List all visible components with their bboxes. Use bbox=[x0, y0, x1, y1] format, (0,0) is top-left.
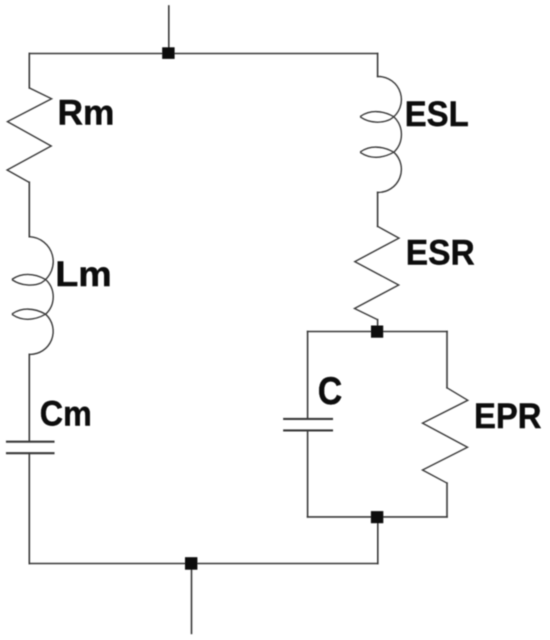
svg-text:EPR: EPR bbox=[474, 396, 542, 436]
svg-text:ESR: ESR bbox=[406, 233, 475, 273]
resistor Rm bbox=[7, 88, 52, 182]
node top terminal junction bbox=[162, 47, 174, 59]
wire node B to bottom rail bbox=[377, 517, 379, 564]
node A (ESR / parallel block top) bbox=[371, 326, 383, 338]
wire parallel block bottom rail bbox=[308, 516, 447, 518]
resistor ESR bbox=[355, 226, 400, 319]
wire left upper (top rail to Rm) bbox=[28, 54, 30, 88]
svg-text:Lm: Lm bbox=[55, 254, 112, 294]
inductor Lm bbox=[13, 237, 54, 355]
capacitor C bbox=[284, 419, 332, 431]
svg-text:ESL: ESL bbox=[405, 94, 469, 134]
wire bottom rail bbox=[29, 563, 378, 565]
svg-text:Rm: Rm bbox=[58, 93, 115, 133]
wire right upper (top rail to ESL) bbox=[377, 54, 379, 77]
wire top terminal stub bbox=[168, 6, 170, 54]
wire block left lower bbox=[307, 430, 309, 517]
svg-text:C: C bbox=[318, 370, 343, 413]
node bottom terminal junction bbox=[185, 557, 197, 570]
inductor ESL bbox=[361, 76, 402, 192]
wire right between ESL and ESR bbox=[377, 192, 379, 226]
wire block right upper (to EPR) bbox=[446, 332, 448, 388]
wire left between Rm and Lm bbox=[28, 182, 30, 237]
capacitor Cm bbox=[7, 442, 54, 454]
wire block right lower bbox=[446, 483, 448, 517]
wire left between Lm and Cm bbox=[28, 354, 30, 441]
resistor EPR bbox=[423, 388, 468, 483]
svg-text:Cm: Cm bbox=[40, 394, 92, 434]
node B (parallel block bottom) bbox=[371, 511, 383, 523]
wire top rail bbox=[29, 53, 377, 55]
wire parallel block top rail bbox=[308, 331, 447, 333]
wire block left upper (to capacitor C) bbox=[307, 332, 309, 419]
wire bottom terminal stub bbox=[191, 564, 193, 634]
wire left lower (Cm to bottom rail) bbox=[28, 453, 30, 563]
wire ESR to node A bbox=[377, 320, 379, 332]
